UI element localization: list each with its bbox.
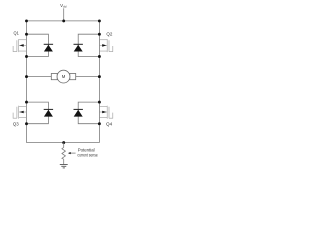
svg-text:Q3: Q3	[13, 122, 19, 127]
wire motor left lead	[27, 76, 52, 78]
wire diode D4 loop	[78, 102, 99, 124]
motor M1 terminal box left	[51, 74, 57, 80]
wire motor right lead	[76, 76, 100, 78]
diode D4	[74, 109, 83, 116]
motor M1 body	[57, 70, 70, 83]
transistor Q1 (high side left MOSFET)	[13, 39, 26, 52]
svg-text:Q1: Q1	[14, 31, 20, 36]
node: Q1 source / D1 anode junction	[25, 55, 28, 58]
node: Q3 drain / D3 cathode junction	[25, 101, 28, 104]
motor M1 terminal box right	[70, 74, 76, 80]
node: Q4 drain / D4 cathode junction	[98, 101, 101, 104]
node: top rail left corner	[25, 19, 28, 22]
node: Vdd tap on top rail	[62, 19, 65, 22]
node: Q3 source / D3 anode junction	[25, 122, 28, 125]
wire Vdd feed	[63, 8, 65, 21]
transistor Q2 (high side right MOSFET)	[99, 39, 112, 52]
diode D1	[44, 44, 53, 51]
node: Q2 drain / D2 cathode junction	[98, 33, 101, 36]
wire diode D1 loop	[27, 34, 49, 56]
svg-text:M: M	[62, 74, 66, 79]
resistor Rsense	[62, 147, 66, 159]
ground	[60, 165, 68, 168]
svg-text:Q2: Q2	[106, 31, 112, 36]
diode D3	[44, 109, 53, 116]
callout arrow to sense resistor	[68, 152, 76, 154]
wire sense resistor bottom lead	[63, 159, 65, 164]
transistor Q3 (low side left MOSFET)	[13, 106, 26, 119]
wire diode D2 loop	[78, 34, 99, 56]
transistor Q4 (low side right MOSFET)	[99, 106, 112, 119]
node: Q1 drain / D1 cathode junction	[25, 33, 28, 36]
node: sense resistor tap on bottom rail	[62, 141, 65, 144]
diode D2	[74, 44, 83, 51]
node: Q2 source / D2 anode junction	[98, 55, 101, 58]
wire diode D3 loop	[27, 102, 49, 124]
svg-text:Q4: Q4	[106, 122, 113, 127]
wire bottom rail	[27, 142, 100, 144]
wire sense resistor top lead	[63, 143, 65, 148]
node: Q4 source / D4 anode junction	[98, 122, 101, 125]
svg-text:current sense: current sense	[77, 152, 98, 157]
svg-text:Vdd: Vdd	[60, 3, 67, 8]
node: motor left junction	[25, 75, 28, 78]
node: top rail right corner	[98, 19, 101, 22]
wire left leg (Q1/Q3 drain-source column)	[26, 21, 28, 143]
wire right leg (Q2/Q4 drain-source column)	[98, 21, 100, 143]
wire top rail	[27, 20, 100, 22]
node: motor right junction	[98, 75, 101, 78]
